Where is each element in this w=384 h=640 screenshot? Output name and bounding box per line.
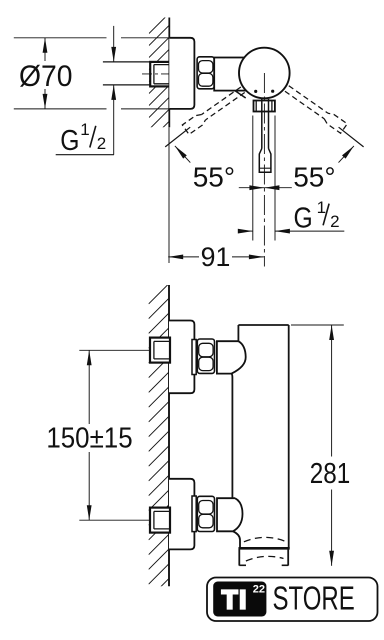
lever shaft	[261, 99, 263, 149]
hose union sides	[238, 548, 240, 565]
lower inlet nose	[217, 498, 243, 531]
ext lines outlet G1/2	[252, 116, 254, 241]
arrow dia70 down	[43, 94, 48, 109]
lower flange (escutcheon)	[169, 479, 194, 550]
arrow 150 down	[87, 505, 92, 520]
svg-text:G: G	[60, 125, 79, 157]
concealed fitting (top view)	[150, 62, 169, 87]
hex nut (top view)	[197, 57, 214, 89]
hose union dashed thread (lower arc)	[246, 556, 284, 561]
dim line 281	[331, 325, 333, 457]
escutcheon flange (top view)	[169, 38, 194, 109]
upper washer	[192, 340, 196, 375]
55deg left arc arrow	[175, 146, 190, 163]
G1/2 dim arrow left	[239, 230, 253, 232]
pipe dim arrow from below	[113, 85, 115, 155]
hose union top edge	[239, 547, 290, 550]
55deg right arc arrow	[339, 146, 354, 163]
svg-text:G: G	[294, 203, 313, 235]
svg-text:STORE: STORE	[273, 579, 355, 616]
svg-text:2: 2	[97, 134, 106, 153]
dim line dia70	[44, 38, 46, 61]
screw dot right	[271, 90, 274, 93]
arrow 91 right	[249, 255, 264, 260]
arrow 150 up	[87, 350, 92, 365]
arrow dia70 up	[43, 38, 48, 53]
body-to-circle transition diagonal	[235, 91, 246, 98]
valve cartridge dome (circle)	[239, 48, 290, 99]
svg-text:1: 1	[80, 120, 89, 139]
arrow 91 left	[168, 255, 183, 260]
valve body (top view)	[214, 58, 246, 91]
body left edge (between unions)	[231, 378, 233, 499]
lower wall fitting	[150, 508, 170, 533]
arrow 281 down	[329, 551, 334, 566]
ext line top (dia 70)	[14, 37, 107, 39]
wall face line (top view)	[168, 18, 170, 128]
lever centerline	[263, 73, 265, 267]
ext line lower pipe center	[79, 519, 150, 521]
55deg left stop tick	[165, 127, 190, 147]
body top edge	[238, 324, 288, 326]
ext line upper pipe center	[79, 349, 150, 351]
body left edge (below lower union)	[233, 531, 240, 548]
upper wall fitting	[150, 338, 170, 363]
upper inlet nose	[217, 341, 246, 373]
supply pipe (top view)	[103, 61, 151, 63]
svg-text:281: 281	[310, 458, 351, 490]
hose union dashed thread (upper arc)	[244, 537, 285, 541]
lever grip tip	[259, 149, 271, 173]
svg-text:150±15: 150±15	[46, 422, 132, 454]
G1/2 dim arrow right	[275, 230, 344, 232]
ext line body top	[291, 324, 344, 326]
upper hex nut	[197, 339, 214, 373]
extension line x=169 for dim 91	[168, 127, 170, 263]
lower washer	[192, 496, 196, 532]
svg-text:91: 91	[201, 242, 231, 272]
upper flange (escutcheon)	[169, 321, 194, 394]
dim line 91	[168, 256, 199, 258]
dashed lever position left (55 deg)	[182, 85, 246, 134]
arrow 281 up	[329, 325, 334, 340]
55deg bottom-right arrow	[264, 187, 291, 189]
centerline fitting (top view)	[142, 73, 173, 75]
svg-text:22: 22	[253, 584, 265, 596]
lever collar (top view)	[254, 101, 275, 112]
screw dot left	[254, 90, 257, 93]
svg-text:55°: 55°	[193, 161, 235, 192]
svg-text:TI: TI	[222, 585, 248, 615]
svg-text:55°: 55°	[293, 161, 335, 192]
svg-text:2: 2	[330, 212, 339, 231]
55deg right stop tick	[339, 127, 364, 147]
pipe dim arrow from above	[113, 26, 115, 62]
55deg bottom-left arrow	[239, 187, 265, 189]
TI STORE logo frame	[207, 578, 378, 622]
ext line bottom (dia 70)	[14, 108, 107, 110]
hose union bottom lips	[239, 564, 246, 566]
body right edge	[288, 325, 290, 548]
TI black badge	[213, 582, 266, 617]
svg-text:1: 1	[317, 198, 326, 217]
dim line 150	[88, 350, 90, 424]
wall face line (bottom view)	[168, 285, 170, 586]
svg-text:Ø70: Ø70	[19, 60, 73, 93]
lower hex nut	[197, 496, 214, 531]
body notch vertical	[237, 325, 239, 341]
dashed lever position right (55 deg)	[284, 84, 348, 133]
